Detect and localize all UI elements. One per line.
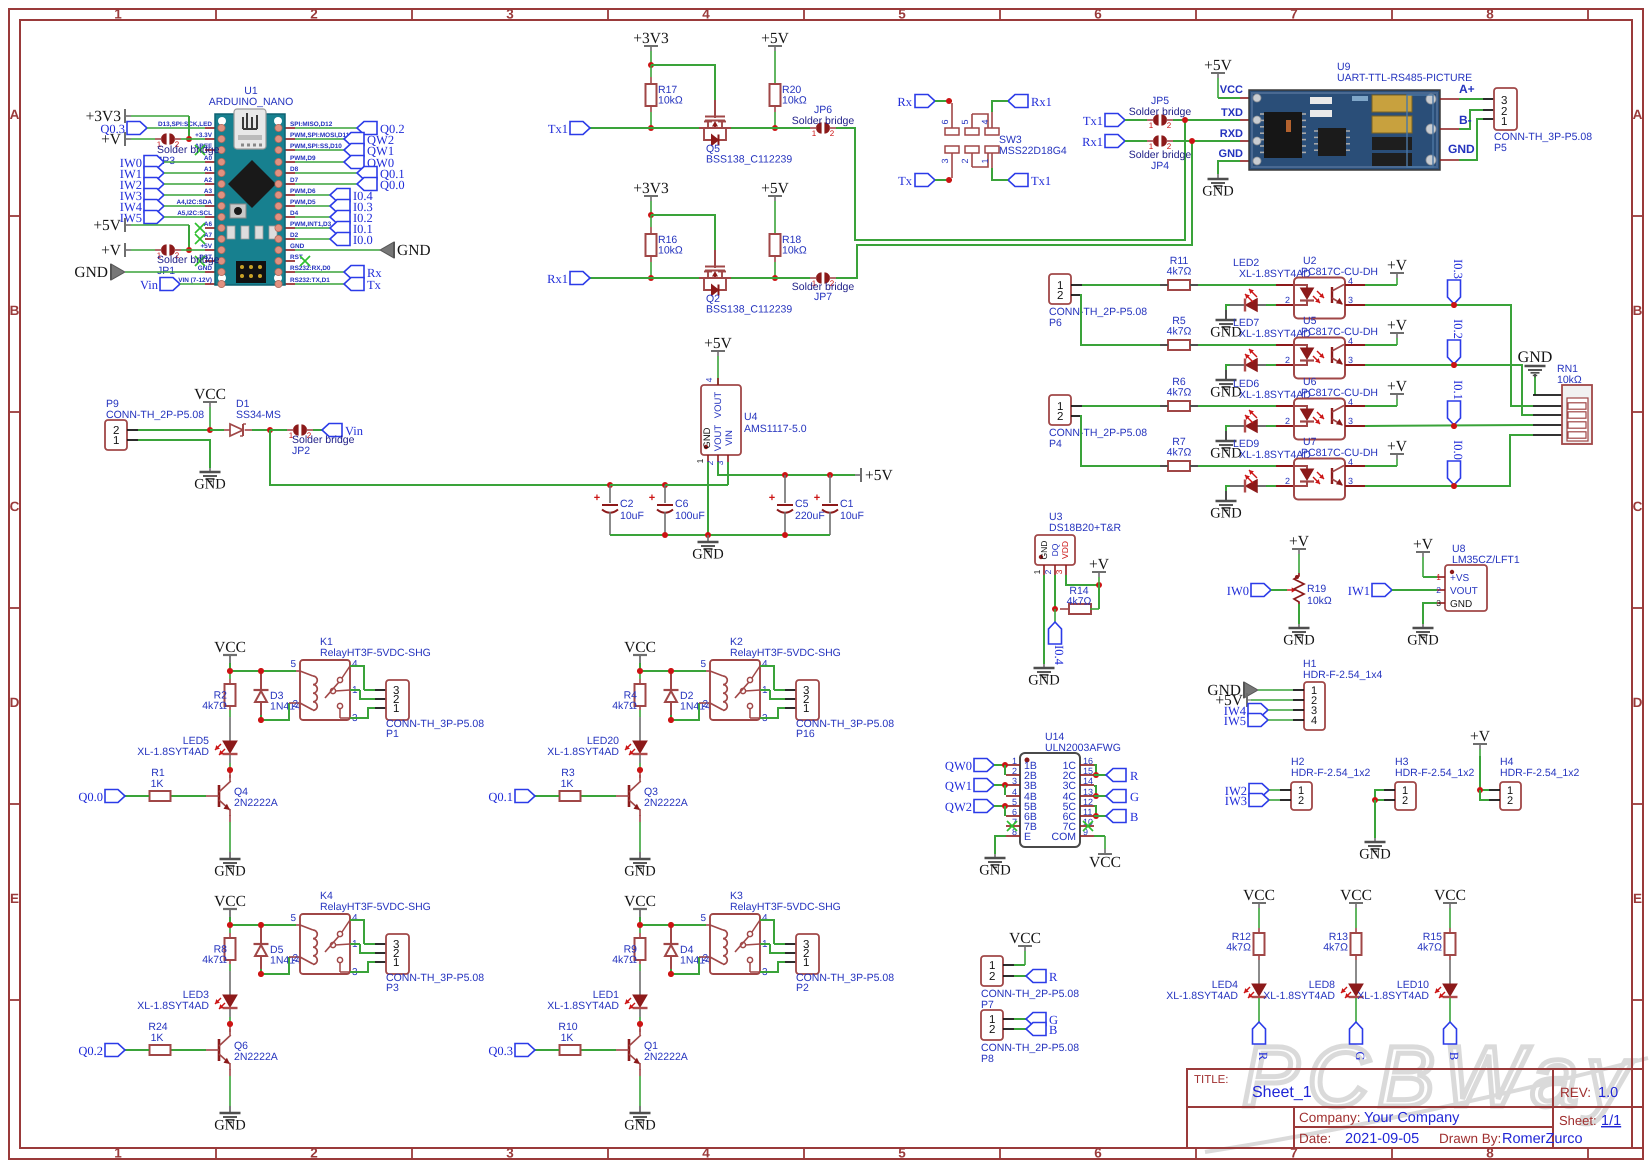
svg-text:A: A [1633,107,1643,122]
svg-text:4: 4 [980,119,990,124]
svg-text:PWM,D6: PWM,D6 [290,188,316,195]
svg-text:+3.3V: +3.3V [195,132,213,139]
svg-text:1: 1 [114,7,122,22]
svg-text:VCC: VCC [624,639,656,656]
svg-text:1: 1 [113,435,119,447]
svg-text:C1: C1 [840,498,854,510]
svg-text:2: 2 [702,953,708,964]
svg-text:Sheet:: Sheet: [1559,1113,1597,1128]
svg-text:2: 2 [1436,585,1441,595]
svg-text:2N2222A: 2N2222A [234,1051,278,1063]
svg-text:4k7Ω: 4k7Ω [1417,942,1442,954]
svg-text:4: 4 [1311,715,1317,727]
svg-text:10uF: 10uF [620,510,644,522]
svg-text:3: 3 [1012,776,1017,786]
svg-text:1K: 1K [151,778,164,790]
svg-text:10kΩ: 10kΩ [658,245,683,257]
svg-text:10kΩ: 10kΩ [658,95,683,107]
svg-text:GND: GND [397,242,431,259]
svg-text:RelayHT3F-5VDC-SHG: RelayHT3F-5VDC-SHG [730,901,841,913]
svg-text:+: + [769,492,775,504]
svg-text:PC817C-CU-DH: PC817C-CU-DH [1301,387,1378,399]
svg-text:CONN-TH_3P-P5.08: CONN-TH_3P-P5.08 [386,972,484,984]
svg-text:JP1: JP1 [157,265,175,277]
svg-text:A0: A0 [204,155,213,162]
svg-text:14: 14 [1083,776,1093,786]
svg-text:+5V: +5V [761,180,789,197]
svg-text:B: B [1633,303,1643,318]
svg-text:HDR-F-2.54_1x2: HDR-F-2.54_1x2 [1500,767,1580,779]
svg-text:+: + [594,492,600,504]
svg-text:+5V: +5V [1204,57,1232,74]
svg-text:GND: GND [624,1118,655,1134]
svg-text:CONN-TH_3P-P5.08: CONN-TH_3P-P5.08 [796,972,894,984]
svg-text:B: B [1130,810,1138,824]
svg-text:Q0.0: Q0.0 [380,178,405,192]
svg-text:1: 1 [1436,572,1441,582]
svg-text:C: C [1633,499,1643,514]
svg-text:PWM,SPI:MOSI,D11: PWM,SPI:MOSI,D11 [290,132,350,139]
svg-text:GND: GND [1448,142,1475,156]
svg-text:VOUT: VOUT [1450,586,1478,597]
svg-text:6: 6 [1012,807,1017,817]
svg-text:4: 4 [762,913,768,924]
svg-text:7: 7 [1290,7,1298,22]
svg-text:DQ: DQ [1050,543,1060,556]
svg-text:Solder bridge: Solder bridge [1129,106,1192,118]
svg-text:D8: D8 [290,166,299,173]
svg-text:1K: 1K [561,1032,574,1044]
svg-text:5: 5 [1012,797,1017,807]
svg-text:GND: GND [1450,599,1472,610]
svg-text:CONN-TH_2P-P5.08: CONN-TH_2P-P5.08 [981,988,1079,1000]
svg-text:4k7Ω: 4k7Ω [612,700,637,712]
svg-text:4k7Ω: 4k7Ω [202,954,227,966]
svg-text:1: 1 [1032,569,1042,574]
svg-text:IW3: IW3 [1225,794,1247,808]
svg-text:CONN-TH_3P-P5.08: CONN-TH_3P-P5.08 [1494,131,1592,143]
svg-text:D7: D7 [290,177,299,184]
svg-text:I0.3: I0.3 [1451,259,1465,279]
svg-text:Rx1: Rx1 [1031,95,1052,109]
svg-text:P6: P6 [1049,317,1062,329]
svg-text:6: 6 [1094,7,1102,22]
svg-text:TXD: TXD [1221,107,1243,119]
svg-text:XL-1.8SYT4AD: XL-1.8SYT4AD [547,746,619,758]
svg-text:IW5: IW5 [1224,714,1246,728]
svg-text:A1: A1 [204,166,213,173]
svg-text:C: C [10,499,20,514]
svg-text:1: 1 [1501,116,1507,128]
svg-text:5: 5 [700,913,706,924]
svg-text:ARDUINO_NANO: ARDUINO_NANO [209,96,294,108]
svg-text:I0.2: I0.2 [1451,319,1465,339]
svg-text:1: 1 [1149,121,1154,130]
svg-text:D2: D2 [290,232,299,239]
svg-text:JP7: JP7 [814,291,832,303]
svg-text:1K: 1K [151,1032,164,1044]
svg-text:3: 3 [940,158,950,163]
svg-text:2: 2 [1285,416,1290,426]
svg-text:3: 3 [1348,355,1353,365]
svg-text:GND: GND [214,864,245,880]
svg-text:IW1: IW1 [1348,584,1370,598]
svg-text:A3: A3 [204,188,213,195]
svg-text:XL-1.8SYT4AD: XL-1.8SYT4AD [547,1000,619,1012]
svg-text:GND: GND [692,547,723,563]
svg-text:I0.1: I0.1 [1451,380,1465,400]
svg-text:QW1: QW1 [945,779,972,793]
svg-text:3: 3 [715,460,725,465]
svg-text:+V: +V [1387,378,1408,395]
svg-text:E: E [1633,891,1642,906]
svg-text:4k7Ω: 4k7Ω [1067,596,1092,608]
svg-text:+5V: +5V [865,467,893,484]
svg-text:PWM,INT1,D3: PWM,INT1,D3 [290,221,332,228]
svg-text:A5,I2C:SCL: A5,I2C:SCL [177,210,212,217]
svg-text:PC817C-CU-DH: PC817C-CU-DH [1301,266,1378,278]
svg-text:IW5: IW5 [120,211,142,225]
svg-text:BSS138_C112239: BSS138_C112239 [706,304,792,316]
svg-text:4: 4 [762,659,768,670]
svg-text:C5: C5 [795,498,809,510]
svg-text:4k7Ω: 4k7Ω [1323,942,1348,954]
svg-text:Tx1: Tx1 [548,122,568,136]
svg-text:4k7Ω: 4k7Ω [1167,326,1192,338]
svg-text:GND: GND [290,243,305,250]
svg-text:PWM,D9: PWM,D9 [290,155,316,162]
svg-text:+3V3: +3V3 [633,180,669,197]
svg-text:GND: GND [624,864,655,880]
svg-text:+3V3: +3V3 [633,30,669,47]
svg-text:G: G [1353,1051,1367,1060]
svg-text:E: E [10,891,19,906]
svg-text:2: 2 [292,699,298,710]
svg-text:P16: P16 [796,728,815,740]
svg-text:JP4: JP4 [1151,160,1169,172]
svg-text:10kΩ: 10kΩ [782,95,807,107]
svg-text:4: 4 [704,377,714,382]
svg-text:2: 2 [960,158,970,163]
svg-text:UART-TTL-RS485-PICTURE: UART-TTL-RS485-PICTURE [1337,72,1472,84]
svg-text:3: 3 [506,7,514,22]
svg-text:GND: GND [1028,673,1059,689]
svg-text:CONN-TH_2P-P5.08: CONN-TH_2P-P5.08 [981,1042,1079,1054]
svg-text:RS232:RX,D0: RS232:RX,D0 [290,265,331,272]
svg-text:PC817C-CU-DH: PC817C-CU-DH [1301,447,1378,459]
svg-text:1: 1 [393,703,399,715]
svg-text:4: 4 [352,659,358,670]
svg-text:XL-1.8SYT4AD: XL-1.8SYT4AD [1263,990,1335,1002]
svg-text:XL-1.8SYT4AD: XL-1.8SYT4AD [137,1000,209,1012]
svg-text:2: 2 [1285,295,1290,305]
svg-text:QW0: QW0 [945,759,972,773]
svg-text:1: 1 [803,957,809,969]
svg-text:2: 2 [1043,569,1053,574]
svg-text:+V: +V [101,131,122,148]
svg-text:10kΩ: 10kΩ [1307,595,1332,607]
svg-text:10kΩ: 10kΩ [1557,374,1582,386]
svg-text:TITLE:: TITLE: [1194,1074,1229,1086]
svg-text:4: 4 [702,7,710,22]
svg-text:VCC: VCC [194,386,226,403]
svg-text:Q0.1: Q0.1 [488,790,513,804]
svg-text:B: B [1049,1023,1057,1037]
svg-text:B: B [10,303,20,318]
svg-text:5: 5 [898,7,906,22]
svg-text:1: 1 [695,458,705,463]
svg-text:4k7Ω: 4k7Ω [1167,266,1192,278]
svg-text:QW2: QW2 [945,800,972,814]
svg-text:GND: GND [74,264,108,281]
svg-text:4k7Ω: 4k7Ω [1167,447,1192,459]
svg-text:Solder bridge: Solder bridge [792,115,855,127]
svg-text:P5: P5 [1494,142,1507,154]
svg-text:I0.4: I0.4 [1052,645,1066,666]
svg-text:CONN-TH_2P-P5.08: CONN-TH_2P-P5.08 [1049,306,1147,318]
svg-text:D13,SPI:SCK,LED: D13,SPI:SCK,LED [158,121,212,128]
svg-text:5: 5 [960,119,970,124]
svg-text:2: 2 [989,971,995,983]
svg-text:B: B [1447,1052,1461,1060]
svg-text:+V: +V [1387,438,1408,455]
svg-text:Rx1: Rx1 [547,272,568,286]
svg-text:R: R [1256,1052,1270,1061]
svg-text:GND: GND [1202,184,1233,200]
svg-text:+V: +V [1470,728,1491,745]
svg-text:12: 12 [1083,797,1093,807]
svg-text:C2: C2 [620,498,634,510]
svg-text:IW0: IW0 [1227,584,1249,598]
svg-text:VIN (7-12V): VIN (7-12V) [178,277,212,284]
svg-text:2: 2 [702,699,708,710]
svg-text:+V: +V [1289,533,1310,550]
svg-text:3: 3 [1348,476,1353,486]
svg-text:I0.0: I0.0 [1451,440,1465,460]
svg-text:2: 2 [1167,121,1172,130]
svg-text:2: 2 [989,1024,995,1036]
svg-text:1: 1 [114,1146,122,1161]
svg-text:D: D [1633,695,1643,710]
svg-text:1: 1 [980,158,990,163]
svg-text:PC817C-CU-DH: PC817C-CU-DH [1301,326,1378,338]
svg-text:+5V: +5V [761,30,789,47]
svg-text:220uF: 220uF [795,510,825,522]
svg-text:R19: R19 [1307,583,1326,595]
svg-text:BSS138_C112239: BSS138_C112239 [706,154,792,166]
svg-text:D: D [10,695,20,710]
svg-text:I0.0: I0.0 [353,233,373,247]
svg-text:Sheet_1: Sheet_1 [1252,1084,1312,1101]
svg-text:VIN: VIN [724,430,735,446]
svg-text:GND: GND [1407,633,1438,649]
svg-text:100uF: 100uF [675,510,705,522]
svg-text:SS34-MS: SS34-MS [236,409,281,421]
svg-text:1.0: 1.0 [1598,1085,1618,1101]
svg-text:1K: 1K [561,778,574,790]
svg-text:A: A [10,107,20,122]
svg-text:GND: GND [702,427,713,448]
svg-text:2: 2 [310,7,318,22]
svg-text:VCC: VCC [214,639,246,656]
svg-text:XL-1.8SYT4AD: XL-1.8SYT4AD [137,746,209,758]
svg-text:G: G [1130,790,1139,804]
svg-text:GND: GND [214,1118,245,1134]
svg-text:6: 6 [940,119,950,124]
svg-text:GND: GND [1219,148,1244,160]
svg-text:SPI:MISO,D12: SPI:MISO,D12 [290,121,333,128]
svg-text:PWM,SPI:SS,D10: PWM,SPI:SS,D10 [290,143,342,150]
svg-text:E: E [1024,831,1031,843]
svg-text:Tx: Tx [898,174,913,188]
svg-text:15: 15 [1083,766,1093,776]
svg-text:DS18B20+T&R: DS18B20+T&R [1049,522,1121,534]
svg-text:Tx: Tx [367,278,382,292]
svg-text:GND: GND [1283,633,1314,649]
svg-text:4: 4 [702,1146,710,1161]
svg-text:3: 3 [1348,295,1353,305]
svg-text:2: 2 [1285,355,1290,365]
svg-text:2N2222A: 2N2222A [234,797,278,809]
svg-text:4k7Ω: 4k7Ω [1167,387,1192,399]
svg-text:Q0.2: Q0.2 [78,1044,103,1058]
svg-text:RomerZurco: RomerZurco [1502,1131,1583,1147]
svg-text:2: 2 [830,129,835,138]
svg-text:1: 1 [803,703,809,715]
svg-text:XL-1.8SYT4AD: XL-1.8SYT4AD [1357,990,1429,1002]
svg-text:2: 2 [310,1146,318,1161]
svg-text:4k7Ω: 4k7Ω [202,700,227,712]
svg-text:3: 3 [506,1146,514,1161]
svg-text:A7: A7 [204,232,213,239]
svg-text:1/1: 1/1 [1601,1113,1621,1129]
svg-text:3: 3 [1054,569,1064,574]
svg-text:1: 1 [393,957,399,969]
svg-text:Your Company: Your Company [1364,1110,1460,1126]
svg-text:GND: GND [1039,541,1049,560]
svg-text:GND: GND [979,863,1010,879]
svg-text:+: + [814,492,820,504]
svg-text:+5V: +5V [200,243,212,250]
svg-text:1: 1 [812,129,817,138]
svg-text:HDR-F-2.54_1x4: HDR-F-2.54_1x4 [1303,669,1383,681]
svg-text:2: 2 [1012,766,1017,776]
svg-text:Rx1: Rx1 [1082,135,1103,149]
svg-text:Tx1: Tx1 [1083,114,1103,128]
svg-text:10kΩ: 10kΩ [782,245,807,257]
svg-text:VCC: VCC [1243,887,1275,904]
svg-text:A4,I2C:SDA: A4,I2C:SDA [176,199,212,206]
svg-text:GND: GND [1518,349,1553,366]
svg-text:5: 5 [290,659,296,670]
svg-text:+V: +V [1413,536,1434,553]
svg-text:RelayHT3F-5VDC-SHG: RelayHT3F-5VDC-SHG [730,647,841,659]
svg-text:VOUT: VOUT [713,425,724,452]
svg-text:AMS1117-5.0: AMS1117-5.0 [744,423,807,435]
svg-text:D4: D4 [290,210,299,217]
svg-text:VOUT: VOUT [713,392,724,419]
svg-text:+V: +V [1387,317,1408,334]
svg-text:CONN-TH_3P-P5.08: CONN-TH_3P-P5.08 [386,718,484,730]
svg-text:2N2222A: 2N2222A [644,1051,688,1063]
svg-text:P2: P2 [796,982,809,994]
svg-text:A2: A2 [204,177,213,184]
svg-text:Date:: Date: [1299,1131,1331,1146]
svg-text:VCC: VCC [1220,84,1243,96]
svg-text:4k7Ω: 4k7Ω [612,954,637,966]
svg-text:GND: GND [1359,847,1390,863]
svg-text:P3: P3 [386,982,399,994]
svg-text:CONN-TH_2P-P5.08: CONN-TH_2P-P5.08 [1049,427,1147,439]
svg-text:5: 5 [898,1146,906,1161]
svg-text:COM: COM [1052,831,1077,843]
svg-text:+5V: +5V [704,335,732,352]
svg-text:3: 3 [1348,416,1353,426]
svg-text:Drawn By:: Drawn By: [1439,1131,1501,1146]
svg-text:VCC: VCC [214,893,246,910]
svg-text:P8: P8 [981,1053,994,1065]
svg-text:5: 5 [700,659,706,670]
svg-text:XL-1.8SYT4AD: XL-1.8SYT4AD [1166,990,1238,1002]
svg-text:4k7Ω: 4k7Ω [1226,942,1251,954]
svg-text:VDD: VDD [1060,541,1070,559]
svg-text:8: 8 [1486,7,1494,22]
svg-text:P1: P1 [386,728,399,740]
svg-text:16: 16 [1083,756,1093,766]
svg-text:GND: GND [198,265,213,272]
svg-text:Rx: Rx [897,95,912,109]
svg-text:5: 5 [290,913,296,924]
svg-text:+: + [649,492,655,504]
svg-text:2021-09-05: 2021-09-05 [1345,1131,1419,1147]
svg-text:PWM,D5: PWM,D5 [290,199,316,206]
svg-text:U4: U4 [744,411,758,423]
svg-text:Company:: Company: [1299,1110,1361,1125]
svg-text:10uF: 10uF [840,510,864,522]
svg-text:Vin: Vin [140,278,159,292]
svg-text:HDR-F-2.54_1x2: HDR-F-2.54_1x2 [1291,767,1371,779]
svg-text:MSS22D18G4: MSS22D18G4 [999,145,1067,157]
svg-text:6: 6 [1094,1146,1102,1161]
svg-text:2: 2 [292,953,298,964]
svg-text:VCC: VCC [1009,930,1041,947]
svg-text:JP2: JP2 [292,445,310,457]
svg-text:+V: +V [1387,257,1408,274]
svg-text:+5V: +5V [93,217,121,234]
svg-text:13: 13 [1083,787,1093,797]
svg-text:2: 2 [1057,411,1063,423]
svg-text:4: 4 [352,913,358,924]
svg-text:2: 2 [1402,795,1408,807]
svg-text:VCC: VCC [1089,854,1121,871]
svg-text:1: 1 [1012,756,1017,766]
svg-text:C6: C6 [675,498,689,510]
svg-text:RelayHT3F-5VDC-SHG: RelayHT3F-5VDC-SHG [320,901,431,913]
svg-text:2: 2 [705,460,715,465]
svg-text:VCC: VCC [1434,887,1466,904]
svg-text:VCC: VCC [1340,887,1372,904]
svg-text:RXD: RXD [1220,128,1243,140]
svg-text:+V: +V [101,242,122,259]
svg-text:R: R [1130,769,1139,783]
svg-text:+V: +V [1089,556,1110,573]
svg-text:VCC: VCC [624,893,656,910]
svg-text:RS232:TX,D1: RS232:TX,D1 [290,277,330,284]
svg-text:2N2222A: 2N2222A [644,797,688,809]
svg-text:4: 4 [1012,787,1017,797]
svg-text:A+: A+ [1459,82,1475,96]
svg-text:A6: A6 [204,221,213,228]
